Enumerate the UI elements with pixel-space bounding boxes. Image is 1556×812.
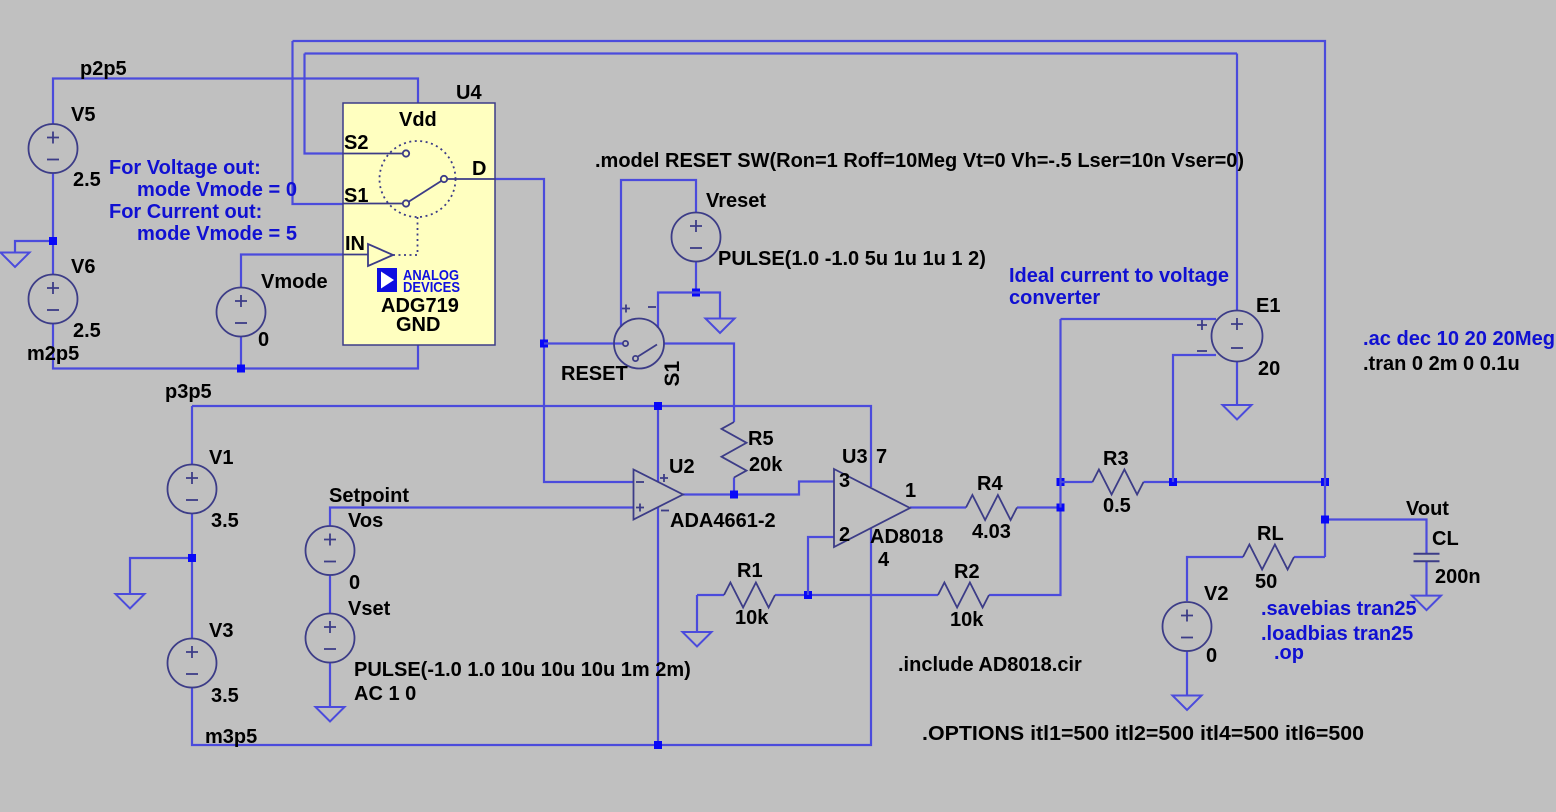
junction Vout vertical / R3 wire (1321, 478, 1329, 486)
ground below Vset (316, 707, 345, 722)
svg-text:7: 7 (876, 446, 887, 468)
svg-text:V3: V3 (209, 620, 233, 642)
wire R5 bottom lead (733, 478, 735, 495)
resistor RL body (1243, 545, 1294, 570)
svg-text:0: 0 (1206, 645, 1217, 667)
svg-text:ADA4661-2: ADA4661-2 (670, 510, 776, 532)
svg-text:0.5: 0.5 (1103, 495, 1131, 517)
wire Vout node to CL top (1325, 520, 1427, 554)
svg-text:.savebias tran25: .savebias tran25 (1261, 598, 1417, 620)
svg-text:Vdd: Vdd (399, 109, 437, 131)
svg-text:50: 50 (1255, 571, 1277, 593)
wire E1 - control input (1173, 355, 1216, 482)
svg-text:mode Vmode = 5: mode Vmode = 5 (137, 223, 297, 245)
svg-text:V2: V2 (1204, 583, 1228, 605)
svg-text:For Current out:: For Current out: (109, 201, 262, 223)
wire E1 + control input (1061, 318, 1217, 320)
svg-text:Ideal current to voltage: Ideal current to voltage (1009, 265, 1229, 287)
wire V5 bottom to V6 top (52, 173, 54, 275)
ground at V1/V3 midpoint (116, 594, 145, 609)
svg-text:V6: V6 (71, 256, 95, 278)
ground at R1 left (683, 632, 712, 647)
wire R3 left lead (1061, 481, 1093, 483)
junction Vreset bottom (692, 289, 700, 297)
wire ground stub at V5/V6 midpoint (15, 241, 53, 253)
wire feedback net B: E1 top to S2 pin (305, 52, 1238, 54)
voltage source V3 (168, 639, 217, 688)
resistor R1 body (724, 583, 775, 608)
ground below CL (1412, 596, 1441, 611)
wire RL right lead (1294, 556, 1325, 558)
svg-text:RESET: RESET (561, 363, 628, 385)
wire Vreset bottom to ground (696, 293, 720, 319)
svg-text:Vmode: Vmode (261, 271, 328, 293)
junction R5 bottom on U2 output (730, 491, 738, 499)
wire E1 output top to feedback net B (1236, 54, 1238, 311)
svg-text:R4: R4 (977, 473, 1003, 495)
wire U2 output to U3 pin3 (683, 482, 834, 495)
wire Setpoint net: Vos top to U2 +input (330, 508, 634, 527)
svg-text:U4: U4 (456, 82, 482, 104)
voltage source Vreset (672, 213, 721, 262)
svg-text:0: 0 (349, 572, 360, 594)
junction V1/V3 midpoint (188, 554, 196, 562)
wire S1 switch output to R5 top (664, 344, 734, 423)
wire ground stub at V1/V3 midpoint (130, 558, 192, 594)
resistor R5 body (722, 422, 747, 478)
voltage source Vmode (217, 288, 266, 337)
op-amp U2 triangle (634, 470, 684, 520)
svg-text:m2p5: m2p5 (27, 343, 79, 365)
svg-text:Vos: Vos (348, 510, 383, 532)
wire E1 bottom lead (1236, 362, 1238, 406)
svg-text:2: 2 (839, 524, 850, 546)
svg-text:R2: R2 (954, 561, 980, 583)
svg-text:Vout: Vout (1406, 498, 1449, 520)
wire to S1 switch left contact (544, 342, 623, 344)
svg-text:AC 1 0: AC 1 0 (354, 683, 416, 705)
svg-text:.tran 0 2m 0 0.1u: .tran 0 2m 0 0.1u (1363, 353, 1520, 375)
svg-text:.ac dec 10 20 20Meg: .ac dec 10 20 20Meg (1363, 328, 1555, 350)
svg-text:2.5: 2.5 (73, 320, 101, 342)
wire Vreset bottom lead (695, 262, 697, 293)
wire Vmode top to U4 IN pin (241, 255, 343, 288)
wire R1 left lead (697, 594, 724, 596)
svg-text:10k: 10k (950, 609, 984, 631)
voltage source V1 (168, 465, 217, 514)
junction Vmode bottom on m2p5 (237, 365, 245, 373)
op-amp U3 triangle (834, 469, 910, 547)
wire m2p5 net: V6 bottom to U4 GND (53, 324, 418, 369)
junction summing node lower (1057, 504, 1065, 512)
svg-text:For Voltage out:: For Voltage out: (109, 157, 261, 179)
capacitor CL plates (1414, 554, 1440, 562)
svg-text:3: 3 (839, 470, 850, 492)
wire Vreset bottom to S1 - control (658, 293, 696, 329)
svg-text:AD8018: AD8018 (870, 526, 943, 548)
svg-text:CL: CL (1432, 528, 1459, 550)
ground below E1 (1223, 405, 1252, 420)
svg-text:20k: 20k (749, 454, 783, 476)
svg-text:p3p5: p3p5 (165, 381, 212, 403)
svg-text:DEVICES: DEVICES (403, 279, 460, 296)
junction U2 V+ on p3p5 (654, 402, 662, 410)
svg-text:3.5: 3.5 (211, 510, 239, 532)
dependent source E1 (1197, 311, 1263, 362)
junction Vout node (1321, 516, 1329, 524)
svg-text:IN: IN (345, 233, 365, 255)
svg-text:.OPTIONS itl1=500 itl2=500 itl: .OPTIONS itl1=500 itl2=500 itl4=500 itl6… (922, 723, 1364, 745)
svg-text:R5: R5 (748, 428, 774, 450)
svg-text:1: 1 (905, 480, 916, 502)
junction U2 V- on m3p5 (654, 741, 662, 749)
wire V1 bottom to V3 top (191, 514, 193, 639)
svg-text:3.5: 3.5 (211, 685, 239, 707)
svg-text:V1: V1 (209, 447, 233, 469)
resistor R4 body (966, 495, 1017, 520)
wire RL left lead to V2 top (1187, 557, 1243, 601)
wire net A down to U4 S1 pin (293, 41, 403, 204)
svg-text:Setpoint: Setpoint (329, 485, 409, 507)
svg-text:m3p5: m3p5 (205, 726, 257, 748)
wire Vreset top to S1 + control (621, 180, 696, 327)
svg-text:0: 0 (258, 329, 269, 351)
voltage source V2 (1163, 602, 1212, 651)
wire p3p5 net: V1 top to U3 pin7 (192, 406, 871, 487)
svg-text:U3: U3 (842, 446, 868, 468)
svg-text:.include AD8018.cir: .include AD8018.cir (898, 654, 1082, 676)
svg-text:PULSE(-1.0 1.0 10u 10u 10u 1m: PULSE(-1.0 1.0 10u 10u 10u 1m 2m) (354, 659, 691, 681)
voltage source Vos (306, 526, 355, 575)
voltage source Vset (306, 614, 355, 663)
svg-text:E1: E1 (1256, 295, 1280, 317)
wire Vmode bottom to m2p5 (240, 337, 242, 369)
wire U2 V- supply to m3p5 (657, 507, 659, 745)
junction V5/V6 midpoint (49, 237, 57, 245)
svg-text:Vset: Vset (348, 598, 391, 620)
ground below V2 (1173, 696, 1202, 711)
wire summing node up to E1 + control (1059, 319, 1061, 508)
wire R1 right to R2 left (775, 594, 938, 596)
wire V1 top lead (191, 406, 193, 465)
wire R4 right lead (1017, 506, 1061, 508)
wire V2 bottom lead (1186, 652, 1188, 696)
junction R1/R2 node (804, 591, 812, 599)
svg-text:2.5: 2.5 (73, 169, 101, 191)
svg-text:U2: U2 (669, 456, 695, 478)
wire U2 V+ supply from p3p5 (657, 406, 659, 482)
wire CL bottom lead (1425, 561, 1427, 595)
voltage source V5 (29, 124, 78, 173)
svg-text:Vreset: Vreset (706, 190, 766, 212)
svg-text:R3: R3 (1103, 448, 1129, 470)
wire R3 right to Vout vertical (1144, 481, 1326, 483)
svg-text:mode Vmode = 0: mode Vmode = 0 (137, 179, 297, 201)
svg-text:D: D (472, 158, 486, 180)
svg-text:S1: S1 (344, 185, 368, 207)
junction feedback to S1 switch (540, 340, 548, 348)
wire net B down to U4 S2 pin (305, 54, 403, 154)
ground below Vreset (706, 319, 735, 334)
U4 internal pins and switch (343, 141, 495, 266)
wire ground stub at R1 left (696, 595, 698, 632)
switch S1 (RESET) (614, 305, 664, 369)
voltage source V6 (29, 275, 78, 324)
ground at V5/V6 midpoint (1, 253, 30, 268)
svg-text:4: 4 (878, 549, 890, 571)
wire Vos bottom to Vset top (329, 575, 331, 614)
IC U4 ADG719 body (343, 103, 495, 345)
wire R2 right lead up to summing node (989, 508, 1061, 596)
svg-text:R1: R1 (737, 560, 763, 582)
wire p2p5 net: V5 top to U4 Vdd (53, 79, 418, 125)
svg-text:10k: 10k (735, 607, 769, 629)
junction summing node upper (1057, 478, 1065, 486)
svg-text:PULSE(1.0 -1.0 5u 1u 1u 1 2): PULSE(1.0 -1.0 5u 1u 1u 1 2) (718, 248, 986, 270)
resistor R3 body (1093, 470, 1144, 495)
svg-text:.model RESET SW(Ron=1 Roff=10M: .model RESET SW(Ron=1 Roff=10Meg Vt=0 Vh… (595, 150, 1244, 172)
svg-text:200n: 200n (1435, 566, 1481, 588)
svg-text:GND: GND (396, 314, 440, 336)
wire Vset bottom lead (329, 663, 331, 708)
svg-text:RL: RL (1257, 523, 1284, 545)
wire R1/R2 node to U3 pin2 (808, 537, 834, 595)
svg-text:S2: S2 (344, 132, 368, 154)
wire m3p5 net: V3 bottom to U3 pin4 (192, 528, 871, 745)
svg-text:p2p5: p2p5 (80, 58, 127, 80)
svg-text:20: 20 (1258, 358, 1280, 380)
svg-text:S1: S1 (661, 360, 684, 386)
svg-text:4.03: 4.03 (972, 521, 1011, 543)
svg-text:.op: .op (1274, 642, 1304, 664)
resistor R2 body (938, 583, 989, 608)
svg-text:V5: V5 (71, 104, 95, 126)
Analog Devices logo (377, 268, 397, 292)
junction R3 right / E1 - control (1169, 478, 1177, 486)
wire U3 output to R4 left (910, 506, 966, 508)
wire feedback net A: Vout to S1 pin (293, 41, 1326, 557)
wire U4 D pin to U2 -input (feedback) (495, 179, 634, 482)
svg-text:converter: converter (1009, 287, 1100, 309)
